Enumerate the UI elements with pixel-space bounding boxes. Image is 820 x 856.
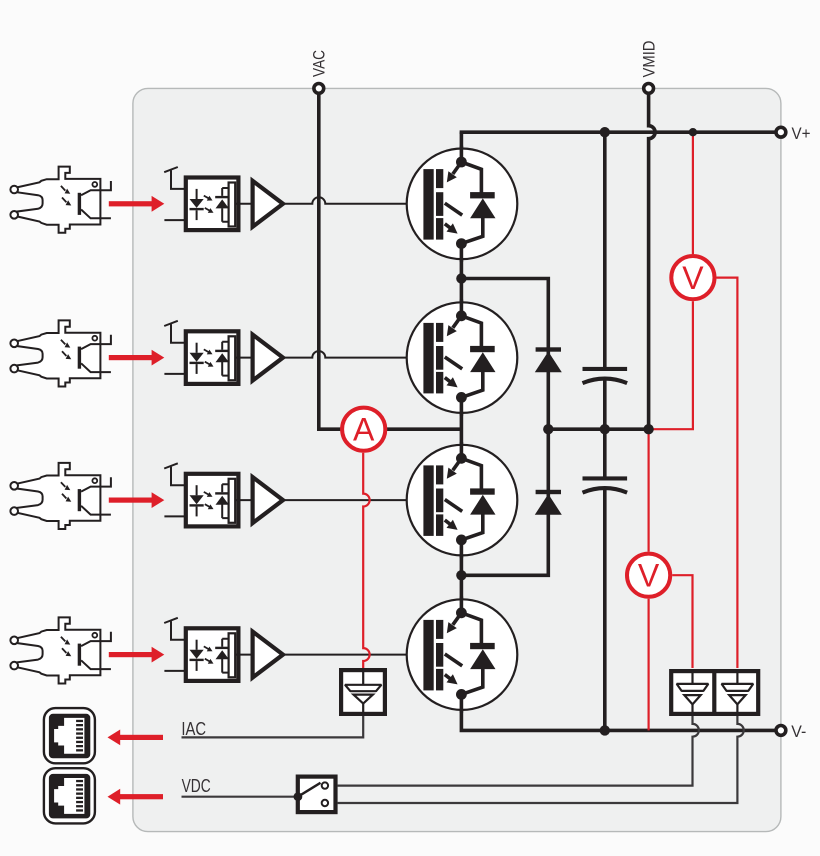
svg-text:V: V	[638, 558, 660, 594]
svg-text:VAC: VAC	[311, 50, 329, 77]
svg-text:VDC: VDC	[182, 776, 211, 796]
svg-text:VMID: VMID	[641, 40, 659, 77]
svg-text:V: V	[682, 260, 704, 296]
svg-text:IAC: IAC	[181, 719, 206, 739]
svg-text:V+: V+	[792, 125, 811, 143]
svg-text:A: A	[353, 412, 375, 448]
svg-text:V-: V-	[791, 723, 806, 741]
